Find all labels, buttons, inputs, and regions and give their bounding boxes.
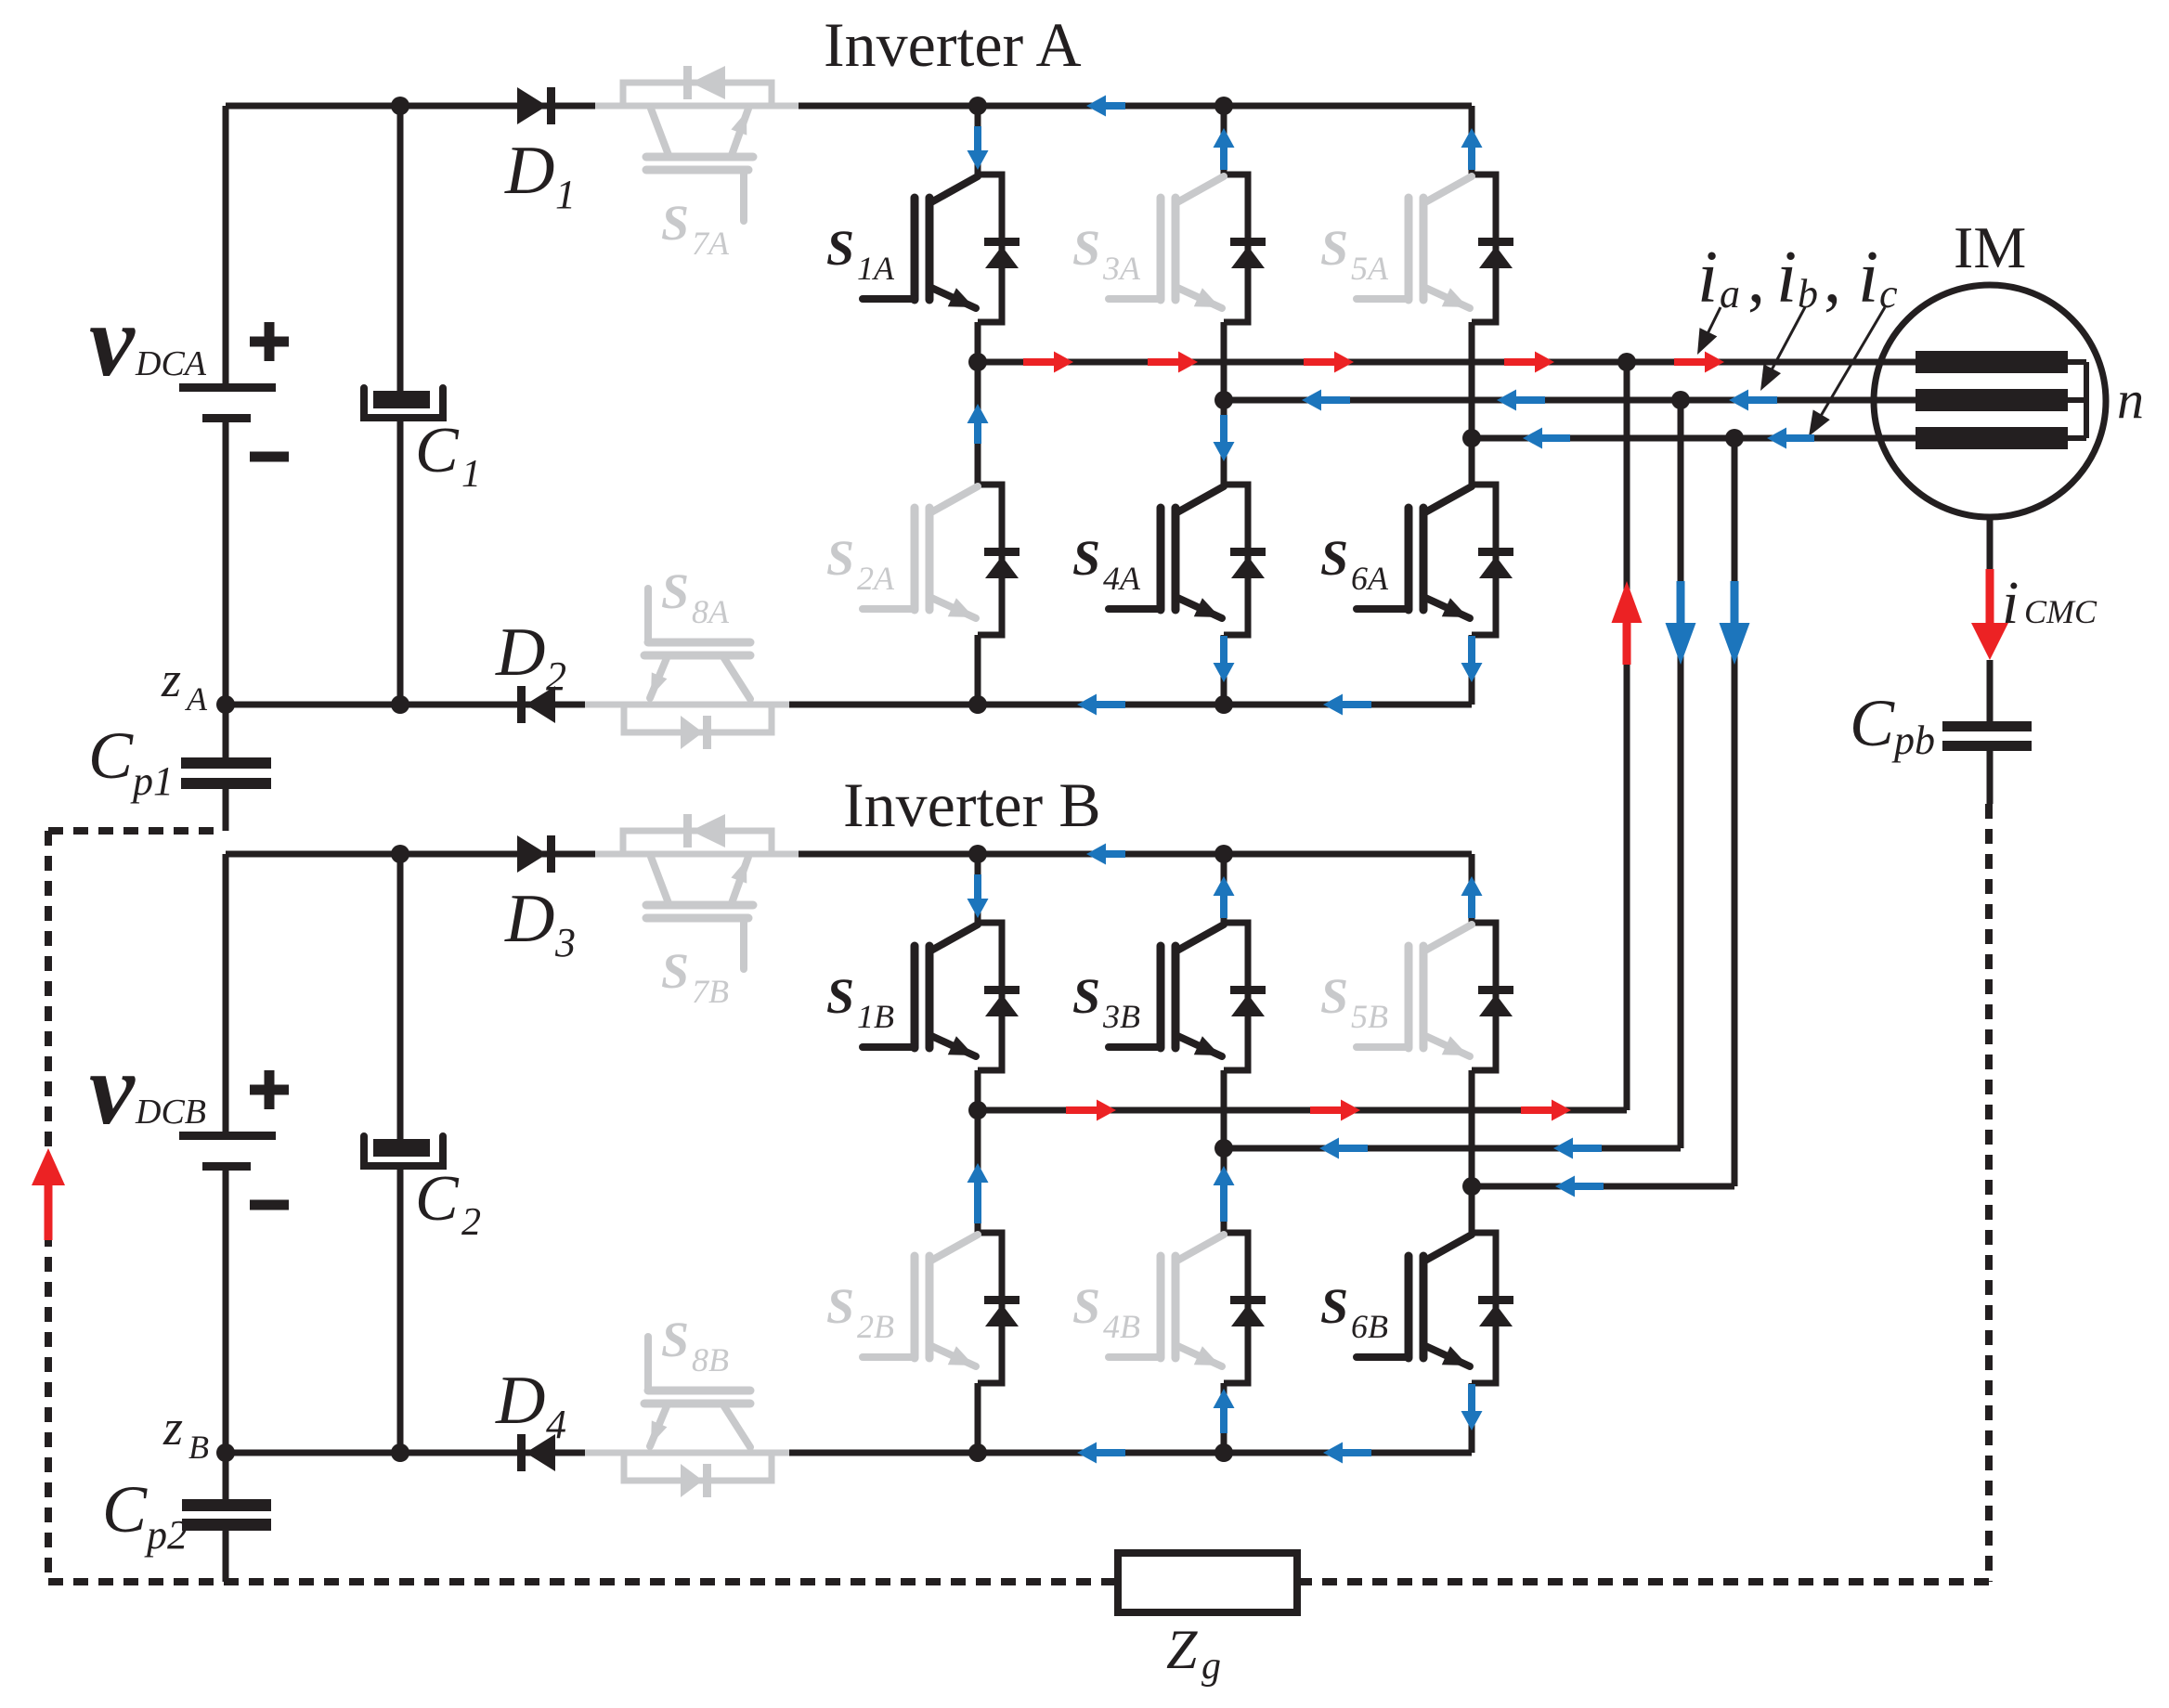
svg-text:a: a [1720,271,1740,317]
svg-text:n: n [2117,369,2144,430]
svg-text:DCA: DCA [135,344,207,383]
svg-text:3: 3 [554,920,576,965]
svg-text:C: C [102,1472,148,1546]
svg-text:3A: 3A [1102,250,1141,287]
svg-text:i: i [1697,237,1718,318]
svg-text:A: A [185,680,208,718]
svg-text:D: D [495,1363,545,1439]
svg-text:i: i [1858,237,1878,318]
svg-text:b: b [1798,271,1818,317]
svg-text:4B: 4B [1103,1308,1140,1345]
svg-text:S: S [661,943,689,999]
svg-text:z: z [162,1400,183,1456]
svg-text:DCB: DCB [135,1093,206,1132]
svg-text:5B: 5B [1351,998,1388,1035]
svg-text:6B: 6B [1351,1308,1388,1345]
svg-text:S: S [1072,530,1100,586]
svg-text:S: S [1320,1278,1348,1334]
svg-text:C: C [415,415,460,486]
svg-text:6A: 6A [1351,560,1389,597]
svg-text:Inverter A: Inverter A [824,9,1082,80]
svg-text:2A: 2A [857,560,895,597]
svg-text:S: S [826,1278,854,1334]
svg-text:p2: p2 [144,1512,188,1558]
svg-text:S: S [1320,530,1348,586]
svg-text:S: S [661,563,689,619]
svg-text:B: B [188,1429,209,1466]
svg-text:Z: Z [1166,1619,1198,1680]
svg-text:8B: 8B [692,1341,729,1378]
svg-text:IM: IM [1954,214,2026,280]
svg-text:,: , [1824,239,1841,317]
svg-text:2: 2 [546,653,566,699]
svg-text:1B: 1B [857,998,894,1035]
svg-text:p1: p1 [130,758,174,804]
svg-text:D: D [504,881,554,957]
svg-text:,: , [1747,239,1765,317]
svg-text:C: C [1850,686,1895,760]
svg-text:S: S [661,195,689,251]
svg-text:8A: 8A [692,593,730,630]
svg-text:S: S [661,1312,689,1367]
svg-text:2: 2 [461,1201,481,1244]
svg-text:7A: 7A [692,225,730,262]
svg-text:2B: 2B [857,1308,894,1345]
svg-text:CMC: CMC [2024,593,2098,630]
svg-text:S: S [1320,220,1348,276]
svg-text:1: 1 [461,453,481,496]
svg-text:D: D [504,133,554,209]
svg-text:Inverter B: Inverter B [843,770,1101,840]
svg-text:i: i [1776,237,1797,318]
svg-text:4A: 4A [1103,560,1141,597]
svg-text:5A: 5A [1351,250,1389,287]
svg-text:7B: 7B [692,973,729,1010]
svg-text:S: S [1072,968,1100,1024]
svg-text:S: S [826,968,854,1024]
svg-text:D: D [495,615,545,691]
svg-text:4: 4 [546,1402,566,1447]
svg-text:z: z [161,652,181,707]
svg-text:g: g [1201,1645,1221,1688]
svg-text:3B: 3B [1102,998,1140,1035]
svg-text:S: S [826,220,854,276]
svg-text:i: i [2002,569,2019,637]
svg-text:C: C [415,1163,460,1235]
svg-text:v: v [89,1032,136,1145]
svg-text:S: S [1072,220,1100,276]
svg-text:S: S [826,530,854,586]
svg-text:S: S [1072,1278,1100,1334]
svg-text:1A: 1A [857,250,895,287]
svg-text:S: S [1320,968,1348,1024]
svg-text:C: C [88,718,134,793]
svg-text:pb: pb [1891,718,1935,763]
svg-text:v: v [89,284,136,397]
svg-text:1: 1 [555,172,576,217]
